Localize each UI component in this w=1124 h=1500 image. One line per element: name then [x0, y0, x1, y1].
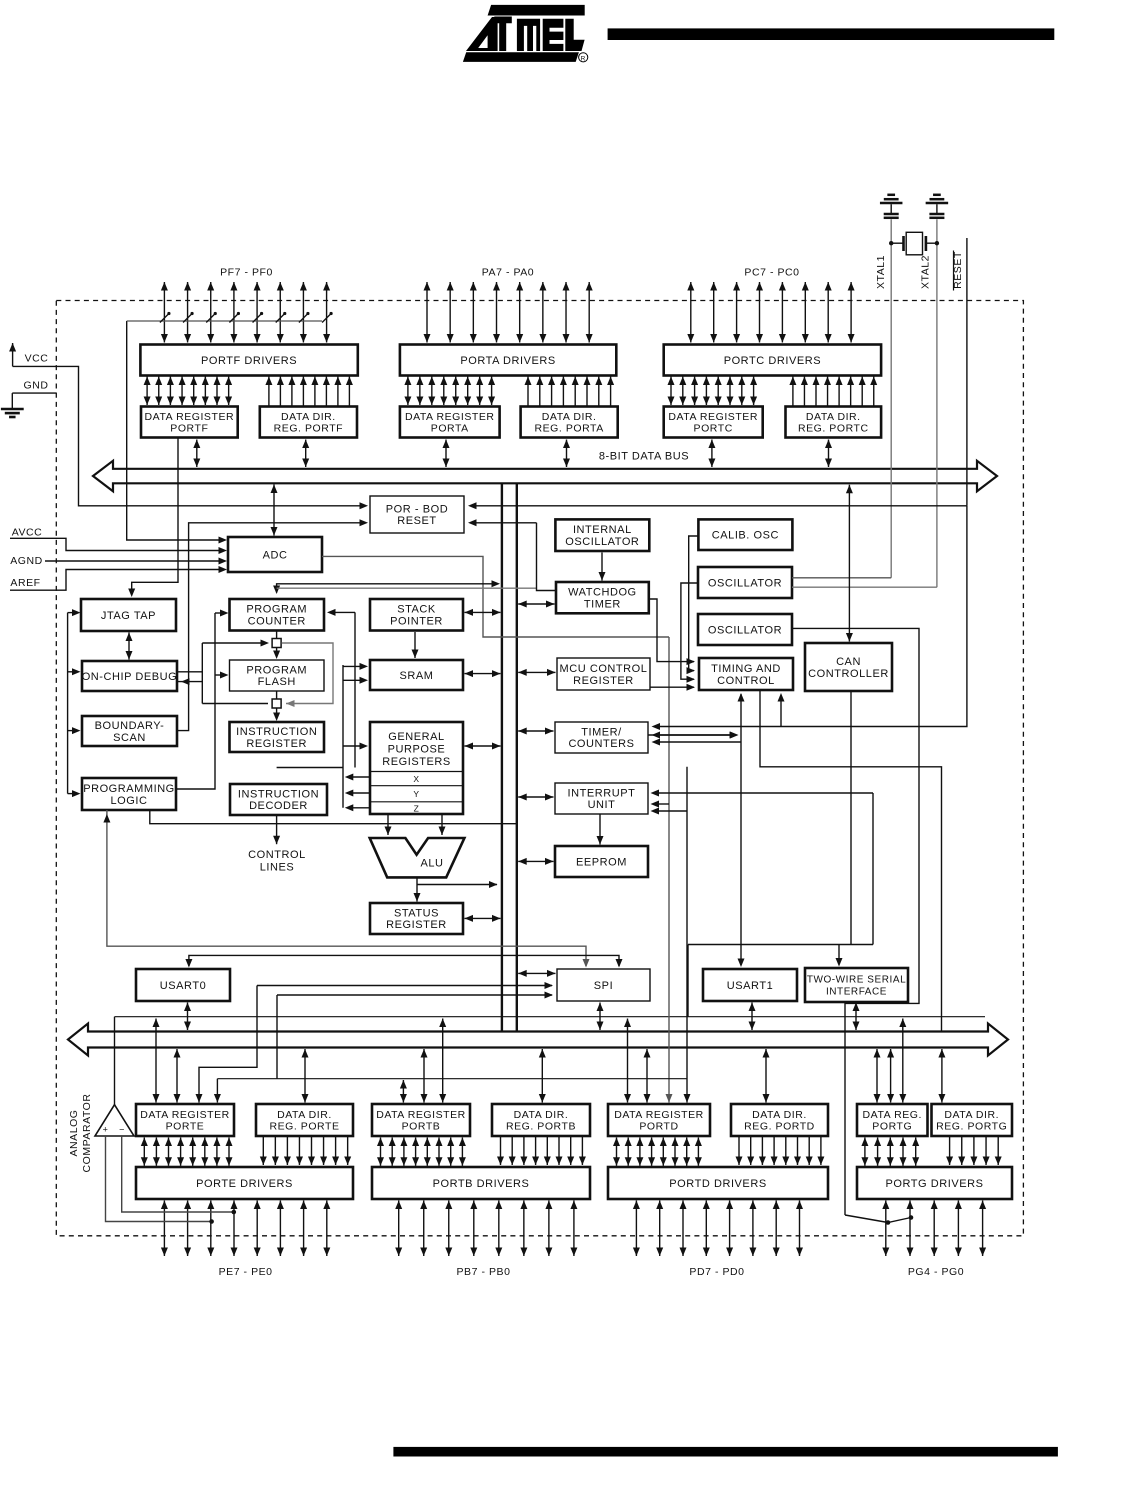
svg-text:DATA DIR.: DATA DIR. [806, 411, 861, 423]
svg-text:EEPROM: EEPROM [576, 856, 627, 868]
svg-text:SPI: SPI [594, 980, 613, 992]
svg-text:PD7 - PD0: PD7 - PD0 [689, 1266, 744, 1278]
svg-text:REG. PORTF: REG. PORTF [274, 423, 343, 435]
svg-text:PORTA DRIVERS: PORTA DRIVERS [460, 355, 555, 367]
svg-text:OSCILLATOR: OSCILLATOR [708, 577, 782, 589]
svg-text:REGISTER: REGISTER [386, 919, 447, 931]
svg-text:PORTF DRIVERS: PORTF DRIVERS [201, 355, 297, 367]
svg-text:POINTER: POINTER [390, 616, 443, 628]
svg-text:REGISTER: REGISTER [246, 738, 307, 750]
svg-text:REG. PORTG: REG. PORTG [936, 1121, 1007, 1133]
svg-text:STATUS: STATUS [394, 908, 439, 920]
svg-text:DATA DIR.: DATA DIR. [752, 1109, 807, 1121]
svg-text:ALU: ALU [420, 858, 443, 870]
svg-text:PG4 - PG0: PG4 - PG0 [908, 1266, 964, 1278]
svg-text:PF7 - PF0: PF7 - PF0 [220, 267, 273, 279]
svg-text:BOUNDARY-: BOUNDARY- [95, 720, 165, 732]
svg-text:PROGRAMMING: PROGRAMMING [83, 783, 175, 795]
svg-text:FLASH: FLASH [258, 676, 296, 688]
svg-text:AGND: AGND [10, 555, 43, 567]
svg-text:Z: Z [414, 804, 420, 814]
svg-text:OSCILLATOR: OSCILLATOR [708, 624, 782, 636]
svg-text:PA7 - PA0: PA7 - PA0 [482, 267, 534, 279]
svg-text:INTERFACE: INTERFACE [826, 986, 887, 997]
svg-text:VCC: VCC [25, 353, 49, 365]
svg-text:CALIB. OSC: CALIB. OSC [712, 530, 779, 542]
svg-text:POR - BOD: POR - BOD [386, 504, 448, 516]
svg-text:REGISTERS: REGISTERS [382, 756, 451, 768]
svg-text:CONTROLLER: CONTROLLER [808, 668, 889, 680]
svg-text:Y: Y [413, 789, 419, 799]
svg-text:PORTD: PORTD [639, 1121, 678, 1133]
svg-text:PORTE: PORTE [166, 1121, 205, 1133]
svg-text:DECODER: DECODER [249, 800, 308, 812]
svg-text:PORTE DRIVERS: PORTE DRIVERS [196, 1178, 293, 1190]
svg-text:DATA DIR.: DATA DIR. [542, 411, 597, 423]
svg-text:PORTD DRIVERS: PORTD DRIVERS [669, 1178, 766, 1190]
svg-text:REG. PORTE: REG. PORTE [269, 1121, 339, 1133]
svg-text:DATA DIR.: DATA DIR. [514, 1109, 569, 1121]
svg-text:DATA REGISTER: DATA REGISTER [376, 1109, 466, 1121]
svg-text:X: X [413, 774, 419, 784]
svg-text:PORTF: PORTF [170, 423, 208, 435]
svg-text:CONTROL: CONTROL [717, 675, 775, 687]
svg-text:DATA REGISTER: DATA REGISTER [405, 411, 495, 423]
svg-text:DATA DIR.: DATA DIR. [944, 1109, 999, 1121]
svg-text:PORTA: PORTA [431, 423, 469, 435]
svg-text:USART1: USART1 [727, 980, 774, 992]
svg-text:DATA REGISTER: DATA REGISTER [614, 1109, 704, 1121]
svg-text:R: R [581, 55, 586, 62]
svg-text:RESET: RESET [397, 515, 436, 527]
svg-text:INTERRUPT: INTERRUPT [568, 788, 636, 800]
svg-text:LINES: LINES [260, 862, 295, 874]
svg-text:INSTRUCTION: INSTRUCTION [238, 789, 319, 801]
svg-text:TWO-WIRE SERIAL: TWO-WIRE SERIAL [807, 975, 906, 986]
svg-text:GND: GND [24, 380, 49, 392]
svg-text:WATCHDOG: WATCHDOG [568, 587, 637, 599]
svg-text:PROGRAM: PROGRAM [246, 604, 307, 616]
svg-text:INSTRUCTION: INSTRUCTION [236, 726, 317, 738]
svg-text:REGISTER: REGISTER [573, 675, 634, 687]
svg-text:XTAL1: XTAL1 [875, 255, 887, 289]
svg-text:CONTROL: CONTROL [248, 849, 306, 861]
svg-text:MCU CONTROL: MCU CONTROL [560, 663, 648, 675]
svg-text:XTAL2: XTAL2 [920, 255, 932, 289]
svg-text:PORTC DRIVERS: PORTC DRIVERS [724, 355, 821, 367]
svg-text:DATA REGISTER: DATA REGISTER [668, 411, 758, 423]
svg-text:LOGIC: LOGIC [111, 795, 148, 807]
svg-text:INTERNAL: INTERNAL [573, 524, 632, 536]
svg-text:SRAM: SRAM [400, 670, 434, 682]
svg-text:TIMER/: TIMER/ [581, 727, 622, 739]
svg-text:COUNTER: COUNTER [248, 616, 306, 628]
svg-text:PC7 - PC0: PC7 - PC0 [744, 267, 799, 279]
svg-text:ANALOG: ANALOG [68, 1109, 80, 1156]
svg-text:CAN: CAN [836, 656, 861, 668]
svg-text:DATA DIR.: DATA DIR. [281, 411, 336, 423]
svg-text:DATA DIR.: DATA DIR. [277, 1109, 332, 1121]
svg-text:DATA REG.: DATA REG. [863, 1109, 922, 1121]
svg-text:REG. PORTA: REG. PORTA [535, 423, 604, 435]
svg-text:COUNTERS: COUNTERS [568, 738, 634, 750]
svg-text:AVCC: AVCC [12, 527, 43, 539]
svg-text:−: − [119, 1125, 125, 1135]
svg-text:PURPOSE: PURPOSE [388, 744, 446, 756]
svg-text:PORTB: PORTB [402, 1121, 441, 1133]
svg-text:PORTB DRIVERS: PORTB DRIVERS [433, 1178, 530, 1190]
svg-text:SCAN: SCAN [113, 732, 146, 744]
svg-text:REG. PORTC: REG. PORTC [798, 423, 869, 435]
svg-text:REG. PORTB: REG. PORTB [506, 1121, 576, 1133]
svg-text:PB7 - PB0: PB7 - PB0 [457, 1266, 511, 1278]
svg-text:DATA REGISTER: DATA REGISTER [140, 1109, 230, 1121]
svg-text:STACK: STACK [397, 604, 436, 616]
svg-text:PE7 - PE0: PE7 - PE0 [219, 1266, 273, 1278]
svg-text:8-BIT DATA BUS: 8-BIT DATA BUS [599, 451, 689, 463]
svg-text:UNIT: UNIT [588, 799, 616, 811]
svg-text:OSCILLATOR: OSCILLATOR [565, 536, 639, 548]
svg-text:USART0: USART0 [160, 980, 207, 992]
svg-text:PROGRAM: PROGRAM [246, 665, 307, 677]
svg-text:+: + [103, 1125, 109, 1135]
svg-text:TIMER: TIMER [584, 598, 621, 610]
svg-text:GENERAL: GENERAL [388, 731, 444, 743]
svg-text:AREF: AREF [10, 577, 40, 589]
svg-text:JTAG TAP: JTAG TAP [101, 610, 156, 622]
svg-text:PORTG DRIVERS: PORTG DRIVERS [885, 1178, 983, 1190]
svg-text:DATA REGISTER: DATA REGISTER [145, 411, 235, 423]
svg-text:REG. PORTD: REG. PORTD [744, 1121, 815, 1133]
svg-text:ADC: ADC [263, 549, 288, 561]
svg-text:TIMING AND: TIMING AND [711, 663, 781, 675]
svg-text:PORTG: PORTG [872, 1121, 912, 1133]
svg-text:COMPARATOR: COMPARATOR [81, 1093, 93, 1172]
svg-text:ON-CHIP DEBUG: ON-CHIP DEBUG [82, 671, 178, 683]
svg-text:PORTC: PORTC [694, 423, 733, 435]
